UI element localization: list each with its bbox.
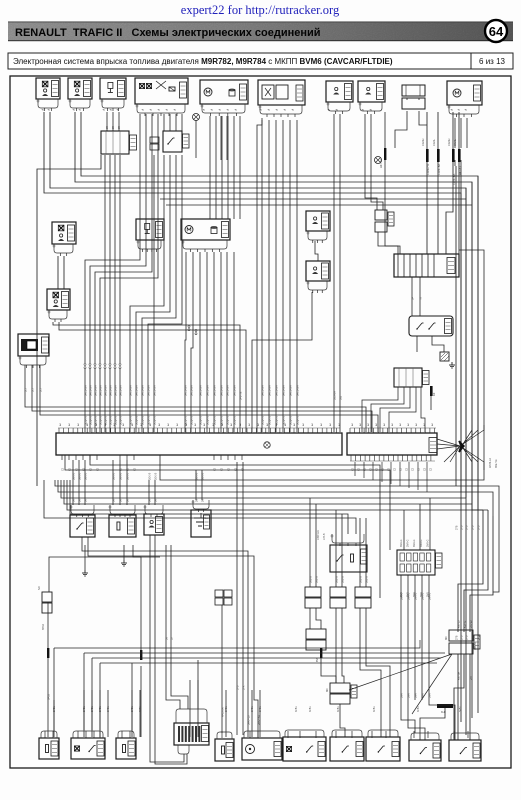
svg-text:3CQK-B: 3CQK-B: [233, 416, 236, 425]
svg-text:3ACB-GR: 3ACB-GR: [141, 385, 144, 396]
wires trio down: [309, 608, 311, 629]
UPC 1337 wires down to relay 1576: [411, 277, 413, 316]
subtitle box: [8, 53, 513, 69]
pedal sensor wires right to ECU: [25, 365, 366, 432]
glow unit bottom loop wires: [150, 535, 184, 762]
svg-text:BP18: BP18: [42, 623, 45, 630]
svg-text:3V: 3V: [119, 499, 122, 502]
twin connector pair R212: [375, 210, 387, 220]
svg-text:3V: 3V: [78, 499, 81, 502]
connector trio below 414: [305, 587, 321, 597]
svg-text:3F1-HE: 3F1-HE: [239, 391, 242, 400]
wire from mark 65A down to pair 1580: [321, 658, 336, 683]
10-pin connector block 1631: [397, 550, 435, 575]
inline connector row: [84, 363, 86, 365]
svg-text:3CQK-B: 3CQK-B: [213, 416, 216, 425]
accelerator pedal sensor box 921: [18, 334, 49, 356]
svg-text:3BZ-G: 3BZ-G: [341, 576, 344, 583]
svg-text:3CQK-B: 3CQK-B: [275, 416, 278, 425]
cross rails to bottom-left boxes: [54, 640, 420, 648]
sensor box 149: [52, 222, 76, 244]
fuse box 1016 bottom 10A: [39, 738, 59, 759]
svg-text:NO: NO: [446, 636, 448, 640]
UPC fuse/relay unit 1337 (striped box): [394, 254, 459, 277]
ECU section B: [347, 433, 437, 455]
svg-text:3CQK-B: 3CQK-B: [199, 416, 202, 425]
svg-text:3FB1: 3FB1: [373, 706, 376, 712]
svg-text:3CQK-B: 3CQK-B: [135, 416, 138, 425]
preheater unit box 140: [191, 510, 211, 537]
svg-text:3ACB-GR: 3ACB-GR: [109, 385, 112, 396]
wires KLR down to fuse boxes: [420, 708, 445, 740]
svg-text:3FB1: 3FB1: [139, 706, 142, 712]
bottom center connector pair 1580: [330, 683, 350, 693]
svg-text:3V: 3V: [154, 499, 157, 502]
R212 to UPC 1337: [378, 232, 398, 254]
svg-text:3CQK-B: 3CQK-B: [261, 416, 264, 425]
ECU pin ticks bottom: [61, 455, 63, 460]
svg-text:49K-BJ: 49K-BJ: [458, 620, 460, 628]
CAN bus wires vertical: [426, 112, 428, 149]
relay 1576 wire to shield ground: [432, 336, 444, 352]
svg-text:3CQK-B: 3CQK-B: [147, 416, 150, 425]
svg-text:3NR-B: 3NR-B: [400, 592, 403, 600]
svg-text:3CQK-B: 3CQK-B: [99, 416, 102, 425]
svg-text:3GK-B: 3GK-B: [154, 472, 157, 480]
svg-text:3CQK-B: 3CQK-B: [190, 416, 193, 425]
relay 1460c: [283, 737, 326, 761]
group C from pump unit 1063: [185, 252, 186, 432]
wires box3 to relay block 983: [106, 112, 108, 131]
fuse 1062: [116, 738, 136, 759]
svg-text:3CQK-B: 3CQK-B: [129, 416, 132, 425]
twin pair 1016d center: [215, 590, 223, 597]
sleeve KF wire: [430, 396, 432, 410]
svg-text:3BZ-G: 3BZ-G: [309, 576, 312, 583]
svg-text:CANL: CANL: [432, 139, 436, 146]
svg-text:3V: 3V: [148, 499, 151, 502]
wires sensor 1070 to connector R212: [365, 114, 377, 210]
svg-text:3ACB-GR: 3ACB-GR: [226, 385, 229, 396]
svg-text:37K: 37K: [242, 685, 245, 690]
svg-text:3ACB-GR: 3ACB-GR: [190, 385, 193, 396]
svg-text:64: 64: [489, 24, 504, 39]
svg-text:3CQK-B: 3CQK-B: [226, 416, 229, 425]
svg-text:6 из 13: 6 из 13: [479, 57, 505, 66]
throttle valve box 1613: [109, 515, 136, 537]
svg-text:3ACB-GR: 3ACB-GR: [206, 385, 209, 396]
svg-text:49K-GR: 49K-GR: [458, 671, 460, 680]
fuel injector rail box 120: [100, 78, 126, 99]
svg-text:3ACB-GR: 3ACB-GR: [199, 385, 202, 396]
EGR valve unit box 1461: [258, 80, 305, 105]
injector box 1083: [136, 219, 164, 240]
R107 connector wires: [406, 98, 408, 100]
svg-text:3NR-G: 3NR-G: [400, 539, 403, 547]
vertical pair from EGR connector right: [257, 118, 262, 432]
svg-text:3CQK-B: 3CQK-B: [94, 416, 97, 425]
ECU engine control unit 120 - section A: [56, 433, 342, 455]
extra cross rails to margin: [160, 198, 466, 200]
svg-text:37B: 37B: [236, 685, 239, 690]
right margin long verticals upper: [455, 166, 457, 486]
box1 bottom rails to sensor 272: [82, 537, 248, 737]
svg-text:3GK-B: 3GK-B: [84, 472, 87, 480]
svg-text:3CQK-B: 3CQK-B: [296, 416, 299, 425]
sensor box 1070: [358, 81, 385, 102]
svg-text:45J-Y1: 45J-Y1: [464, 620, 466, 628]
svg-text:3FB1: 3FB1: [295, 706, 298, 712]
sensor 414 box: [330, 545, 367, 572]
svg-text:3GK-B: 3GK-B: [119, 472, 122, 480]
svg-text:3ACB-GR: 3ACB-GR: [296, 385, 299, 396]
ground shield node MH: [440, 352, 449, 361]
svg-text:37B: 37B: [465, 525, 468, 530]
mini fuse box 1016a: [150, 137, 159, 143]
wires mid-left boxes down: [84, 545, 86, 560]
glow plug control unit 1574: [174, 723, 209, 745]
svg-text:3LT: 3LT: [24, 387, 27, 392]
box 149 wires down into 1551: [57, 256, 59, 289]
sensor box 1391 upper: [306, 211, 330, 231]
svg-text:3V: 3V: [72, 499, 75, 502]
wires from ECU bottom to mid-left boxes: [72, 460, 74, 505]
svg-text:3AKF-RB: 3AKF-RB: [257, 714, 260, 725]
svg-text:3CQK-B: 3CQK-B: [119, 416, 122, 425]
wires down to bottom left boxes: [53, 700, 55, 737]
preheat relay box 46A: [71, 738, 105, 759]
wide multi-element box 146 (throttle unit): [135, 78, 188, 104]
relay 1047: [163, 131, 182, 152]
svg-text:37B: 37B: [460, 635, 463, 640]
svg-text:3NR: 3NR: [428, 693, 431, 698]
alternator box 1770 (M): [447, 81, 482, 105]
svg-text:37B: 37B: [460, 525, 463, 530]
svg-text:3CQK-B: 3CQK-B: [268, 416, 271, 425]
pump unit box 1460 (M + cylinder): [200, 80, 248, 104]
fuse 1016e: [215, 739, 234, 761]
svg-text:49K-BJ: 49K-BJ: [474, 641, 477, 650]
svg-text:3FB1: 3FB1: [459, 706, 462, 712]
diagonal wire to pair 1580: [349, 654, 452, 690]
svg-text:3V: 3V: [112, 499, 115, 502]
svg-text:Электронная система впрыска то: Электронная система впрыска топлива двиг…: [13, 57, 393, 66]
svg-text:37B: 37B: [455, 635, 458, 640]
svg-text:3BZ-G: 3BZ-G: [315, 576, 318, 583]
svg-text:3CQK-B: 3CQK-B: [141, 416, 144, 425]
center vertical pair long: [236, 462, 238, 735]
svg-text:3NR: 3NR: [414, 693, 417, 698]
svg-text:3ACB-GR: 3ACB-GR: [135, 385, 138, 396]
svg-text:3V: 3V: [126, 499, 129, 502]
svg-text:3LT: 3LT: [31, 387, 34, 392]
svg-text:3ACB-GR: 3ACB-GR: [129, 385, 132, 396]
EGR cooler valve box 1883: [70, 515, 95, 537]
svg-text:3ACB-GR: 3ACB-GR: [268, 385, 271, 396]
svg-text:3FB1: 3FB1: [225, 706, 228, 712]
svg-text:3CQK-B: 3CQK-B: [84, 416, 87, 425]
svg-text:3GK-B: 3GK-B: [112, 472, 115, 480]
svg-text:3ACB-GR: 3ACB-GR: [119, 385, 122, 396]
box3 bottom feed: [131, 663, 133, 732]
svg-text:3CQK-B: 3CQK-B: [109, 416, 112, 425]
svg-text:37B: 37B: [455, 525, 458, 530]
relay 700: [366, 737, 400, 761]
svg-text:3ACB-GR: 3ACB-GR: [184, 385, 187, 396]
svg-text:3NR-B: 3NR-B: [407, 592, 410, 600]
relay 1160: [330, 737, 364, 761]
svg-text:3K: 3K: [165, 637, 168, 640]
wires sensor 1071 straight to ECU: [333, 114, 335, 432]
svg-text:3CQK-B: 3CQK-B: [289, 416, 292, 425]
svg-text:37B: 37B: [477, 525, 480, 530]
wires from ECU right section bottom down: [354, 462, 356, 476]
bus y557 to lower-left chain: [49, 557, 160, 592]
svg-text:3ACB-GR: 3ACB-GR: [275, 385, 278, 396]
svg-text:3ACB-GR: 3ACB-GR: [233, 385, 236, 396]
svg-text:CANH: CANH: [421, 139, 425, 146]
svg-text:3CQK-B: 3CQK-B: [282, 416, 285, 425]
sensor box 1392 lower: [306, 261, 330, 281]
svg-text:3NR-G: 3NR-G: [407, 539, 410, 547]
svg-text:3V: 3V: [84, 499, 87, 502]
group D from pump 1460 down: [233, 116, 235, 219]
svg-text:3CQK-B: 3CQK-B: [220, 416, 223, 425]
svg-text:CANH: CANH: [447, 139, 451, 146]
svg-text:3CQK-B: 3CQK-B: [104, 416, 107, 425]
bus drops to trio connectors: [309, 498, 311, 587]
svg-text:3BZ-G: 3BZ-G: [365, 576, 368, 583]
svg-text:3LT: 3LT: [39, 387, 42, 392]
svg-text:3ACB-GR: 3ACB-GR: [99, 385, 102, 396]
svg-text:3ACB-GR: 3ACB-GR: [289, 385, 292, 396]
svg-text:3CQK-B: 3CQK-B: [114, 416, 117, 425]
right pair lower wires: [457, 654, 459, 740]
svg-text:BP: BP: [411, 296, 414, 300]
svg-text:3FB1: 3FB1: [107, 706, 110, 712]
svg-text:3FB1: 3FB1: [309, 706, 312, 712]
sensor 272 (circle): [242, 738, 282, 760]
twin connectors R107: [402, 85, 425, 96]
svg-text:37K: 37K: [470, 675, 472, 680]
sensor box 1071: [326, 81, 353, 102]
NET twisted mark left: [384, 148, 386, 160]
fuse 1164 20A: [409, 740, 441, 761]
relay box 1576 (rounded): [409, 316, 453, 336]
svg-text:3BB-GR: 3BB-GR: [333, 391, 336, 400]
svg-text:3NR: 3NR: [407, 693, 410, 698]
header band: [8, 22, 513, 41]
pump box 1063: [181, 219, 230, 240]
wire sleeve mark KF: [430, 386, 433, 396]
svg-text:3ACB-GR: 3ACB-GR: [282, 385, 285, 396]
svg-text:3ACB-GR: 3ACB-GR: [261, 385, 264, 396]
svg-text:3ACB-GR: 3ACB-GR: [94, 385, 97, 396]
4-pin pair 598 right side: [449, 630, 473, 641]
svg-text:AP29-JA: AP29-JA: [489, 458, 492, 468]
svg-text:NO: NO: [38, 586, 41, 590]
group B cascade: [163, 114, 165, 131]
bundle from EGR box 1461 to ECU: [261, 120, 263, 432]
svg-text:3ACB-GR: 3ACB-GR: [213, 385, 216, 396]
wires box 1391 to 1392 chain: [315, 241, 318, 261]
svg-text:3GK-B: 3GK-B: [148, 472, 151, 480]
CAN twisted pair marks: [426, 149, 429, 162]
svg-text:3NR-B: 3NR-B: [421, 592, 424, 600]
wire from pair down to box 1016e: [221, 605, 223, 733]
KLR sleeve horizontal: [437, 704, 453, 708]
svg-text:3CQK-B: 3CQK-B: [89, 416, 92, 425]
bottom row top pin ticks: [44, 731, 46, 738]
svg-text:3GK-B: 3GK-B: [126, 472, 129, 480]
svg-text:39E-YE: 39E-YE: [495, 459, 498, 468]
svg-text:H47-Y1: H47-Y1: [379, 159, 383, 168]
svg-text:expert22 for http://rutracker.: expert22 for http://rutracker.org: [181, 3, 340, 17]
svg-text:145Y-GR: 145Y-GR: [317, 530, 320, 540]
svg-text:3NR-B: 3NR-B: [428, 592, 431, 600]
connector block 645 (8-pin): [394, 368, 422, 387]
svg-text:3FB1: 3FB1: [337, 706, 340, 712]
svg-text:AP29-JA: AP29-JA: [221, 707, 224, 717]
svg-text:14Y-B: 14Y-B: [323, 533, 326, 540]
svg-text:3AKF-BJ: 3AKF-BJ: [247, 715, 250, 725]
svg-text:37B: 37B: [471, 525, 474, 530]
fuse 1336 40A: [449, 740, 481, 761]
horizontal buses below ECU: [65, 455, 390, 550]
left twin connector 223: [42, 592, 52, 602]
relay block 983 (4-pin): [101, 131, 129, 154]
staircase buses mid page: [55, 480, 499, 592]
ECU pin ticks top: [58, 428, 60, 433]
svg-text:NO: NO: [327, 688, 329, 692]
svg-text:3R: 3R: [113, 126, 115, 129]
svg-text:3NR-G: 3NR-G: [426, 539, 429, 547]
svg-text:3R: 3R: [107, 126, 109, 129]
svg-text:3ACB-GR: 3ACB-GR: [147, 385, 150, 396]
svg-text:3CQK-B: 3CQK-B: [153, 416, 156, 425]
sensor 1551 rails right to ECU verticals: [53, 322, 240, 432]
ECU right splice knot: [459, 441, 464, 452]
svg-text:3R: 3R: [119, 126, 121, 129]
sensor box 744: [144, 514, 164, 535]
svg-text:37B-BJ: 37B-BJ: [470, 620, 472, 628]
wires 1460 lower pins to ECU: [220, 252, 222, 432]
glow plug feed wires: [166, 545, 180, 709]
svg-text:RENAULT TRAFIC II Схемы эле: RENAULT TRAFIC II Схемы электрических со…: [15, 27, 321, 39]
wire marks lower left: [47, 648, 49, 658]
NET wire from splice down: [384, 112, 386, 148]
injector 2 (box 194): [68, 78, 92, 99]
svg-text:37B: 37B: [465, 635, 468, 640]
diagonal wire to KLR: [412, 654, 452, 714]
right margin long verticals lower, turning into pair 598: [458, 510, 483, 632]
svg-text:3ACB-GR: 3ACB-GR: [114, 385, 117, 396]
svg-text:3ACB-GR: 3ACB-GR: [84, 385, 87, 396]
svg-text:3ACB-GR: 3ACB-GR: [89, 385, 92, 396]
splice node circle right: [375, 157, 382, 164]
svg-text:3ACB-GR: 3ACB-GR: [220, 385, 223, 396]
wires from alternator 1770 down: [454, 118, 456, 148]
svg-text:3BZ-G: 3BZ-G: [359, 576, 362, 583]
svg-text:3NR: 3NR: [400, 693, 403, 698]
svg-text:3CQK-B: 3CQK-B: [206, 416, 209, 425]
svg-text:3NR-G: 3NR-G: [413, 539, 416, 547]
svg-text:3GK-B: 3GK-B: [72, 472, 75, 480]
svg-text:3ACB-GR: 3ACB-GR: [153, 385, 156, 396]
injector 1 (box 193) with clamp glyph: [36, 78, 60, 99]
center bundle group A cascade to inline connectors: [85, 114, 140, 363]
svg-text:3ACB-GR: 3ACB-GR: [104, 385, 107, 396]
svg-text:3GK-B: 3GK-B: [78, 472, 81, 480]
connector pair 1016c lower-left: [306, 629, 326, 639]
page number circle 64: [485, 20, 507, 42]
wire from splice 196 down: [195, 120, 197, 158]
8-pin 645 fan to ECU right section: [362, 387, 398, 432]
sensor box 1551: [47, 289, 70, 310]
svg-text:KF: KF: [432, 392, 436, 396]
wires 10pin down to bottom row: [400, 575, 402, 700]
splice node circle: [193, 114, 200, 121]
svg-text:3NR-G: 3NR-G: [420, 539, 423, 547]
wire from box3 region to left column x37: [37, 155, 101, 486]
svg-text:3BZ-G: 3BZ-G: [335, 576, 338, 583]
svg-text:3NR-B: 3NR-B: [414, 592, 417, 600]
svg-text:3CQK-B: 3CQK-B: [184, 416, 187, 425]
wire mark 65A: [320, 648, 322, 658]
wires: injector box rails across to right margin: [81, 112, 478, 713]
svg-text:3FB1: 3FB1: [251, 706, 254, 712]
svg-text:3FB1: 3FB1: [417, 706, 420, 712]
svg-text:3FB1: 3FB1: [259, 706, 262, 712]
bus to 414 box: [70, 480, 348, 534]
